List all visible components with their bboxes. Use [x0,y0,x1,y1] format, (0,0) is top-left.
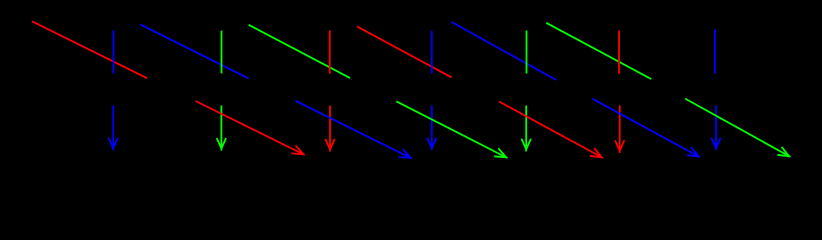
top-row vertical line T2 blue [113,31,115,74]
top-row vertical line T13 blue [714,29,716,73]
bottom-row diagonal arrow B8 red [499,102,603,159]
top-row diagonal line T7 red [357,26,452,77]
top-row diagonal line T5 green [249,25,351,78]
bottom-row diagonal arrow B2 red [196,101,305,155]
bottom-row vertical down-arrow B5 red [325,106,334,152]
bottom-row vertical down-arrow B7 blue [427,106,436,151]
bottom-row diagonal arrow B6 green [396,101,507,158]
top-row diagonal line T11 green [546,23,651,79]
bottom-row vertical down-arrow B9 green [522,106,531,152]
top-row diagonal line T3 blue [140,24,248,78]
top-row vertical line T6 red [329,31,331,74]
top-row diagonal line T1 red [32,21,147,78]
bottom-row diagonal arrow B4 blue [296,101,413,159]
bottom-row diagonal arrow B12 green [685,99,790,157]
bottom-row vertical down-arrow B1 blue [109,106,118,151]
top-row vertical line T8 blue [431,31,433,74]
top-row vertical line T12 red [618,31,620,74]
top-row vertical line T10 green [526,31,528,74]
top-row vertical line T4 green [221,31,223,74]
bottom-row diagonal arrow B10 blue [592,99,700,158]
top-row diagonal line T9 blue [451,22,556,80]
interleaving timing diagram: black background, colored lines and arrows [0,0,822,181]
bottom-row vertical down-arrow B3 green [217,106,226,151]
bottom-row vertical down-arrow B13 blue [711,106,720,151]
bottom-row vertical down-arrow B11 red [615,105,624,153]
